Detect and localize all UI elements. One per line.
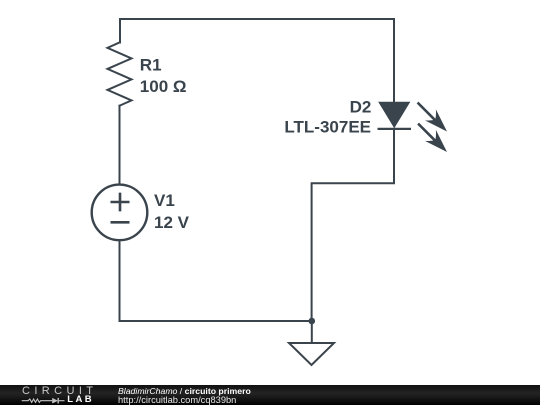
svg-text:LTL-307EE: LTL-307EE [284, 117, 371, 136]
footer credit line [118, 386, 251, 396]
wire LED cathode down-jog [312, 129, 394, 321]
voltage source V1 [92, 185, 148, 241]
footer bar [0, 385, 540, 405]
svg-text:D2: D2 [350, 97, 372, 116]
wire bottom horizontal [120, 320, 313, 322]
wire top-left vertical [119, 19, 121, 43]
svg-text:100 Ω: 100 Ω [140, 77, 187, 96]
logo resistor-diode glyph [20, 396, 70, 405]
ground [289, 343, 334, 365]
logo LAB [67, 394, 94, 405]
wire ground stub [311, 321, 313, 343]
logo CIRCUIT [22, 385, 97, 397]
svg-text:V1: V1 [154, 191, 175, 210]
wire top [120, 18, 394, 20]
LED D2 [378, 103, 448, 153]
resistor R1 [108, 43, 132, 106]
wire resistor to V1 [119, 106, 121, 185]
wire V1 to bottom [119, 241, 121, 322]
wire right vertical [393, 19, 395, 103]
svg-text:12 V: 12 V [154, 213, 190, 232]
junction node [309, 318, 316, 325]
svg-text:R1: R1 [140, 56, 162, 75]
footer url line [118, 395, 236, 405]
